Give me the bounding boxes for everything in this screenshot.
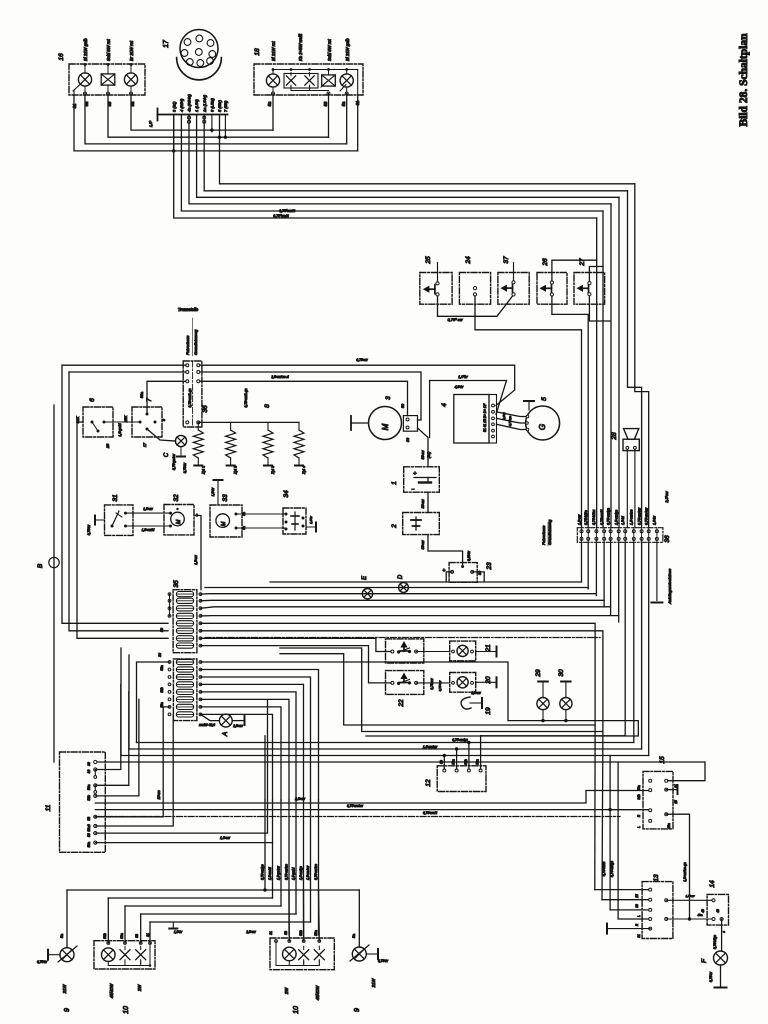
terminal strip of connector 17 (158, 114, 228, 116)
svg-text:35²sw: 35²sw (421, 540, 425, 550)
23 wires to line (446, 572, 452, 582)
svg-text:1,5²ge/bl: 1,5²ge/bl (292, 867, 296, 880)
svg-text:56a0: 56a0 (87, 824, 91, 832)
switch 25 (420, 273, 452, 305)
svg-text:9: 9 (354, 1008, 361, 1012)
svg-text:19: 19 (485, 707, 492, 715)
9L ground (49, 954, 60, 956)
svg-text:Grundfahrzeug: Grundfahrzeug (548, 519, 552, 545)
svg-text:0,75²br: 0,75²br (709, 971, 713, 982)
svg-text:1,5²sw: 1,5²sw (577, 514, 581, 525)
svg-text:Bl 21W gelb: Bl 21W gelb (345, 38, 350, 61)
svg-text:0,75²ws/rt: 0,75²ws/rt (423, 811, 437, 815)
strip36R fanout to mid lines (581, 542, 583, 581)
switch 27 wire bottom (589, 296, 610, 321)
svg-text:16: 16 (58, 53, 65, 61)
svg-text:Trennstelle: Trennstelle (178, 307, 199, 312)
svg-text:2,5²sw: 2,5²sw (232, 724, 243, 728)
svg-text:6: 6 (89, 398, 96, 402)
harness line y600 (201, 599, 605, 602)
band2 y809 (95, 809, 648, 811)
fuse u594 (176, 592, 193, 597)
lamp Bl 21W gelb (16) (78, 73, 91, 86)
svg-text:0,75²sw/gn: 0,75²sw/gn (452, 738, 468, 742)
harness line y607 (201, 607, 611, 609)
lamp Br 21W rot (16) (124, 73, 137, 86)
switch 25 wire to 37 (438, 295, 514, 317)
svg-text:27: 27 (579, 258, 586, 267)
svg-text:Fahrerhaus: Fahrerhaus (542, 525, 546, 545)
svg-text:31: 31 (112, 494, 119, 502)
svg-text:Bild 28. Schaltplan: Bild 28. Schaltplan (738, 33, 750, 127)
svg-text:Zyl 2: Zyl 2 (234, 465, 238, 475)
10L wires up (107, 898, 109, 943)
fuse u623 (176, 621, 193, 626)
strip36R cols down to lower band (624, 542, 626, 736)
ignition feed bus y422 (198, 421, 299, 423)
flasher box 12 (437, 766, 486, 792)
main harness line 15 (lower frame) (69, 371, 186, 373)
fuse u631 (176, 628, 193, 633)
resistor box 34 (283, 508, 306, 534)
svg-text:Schl 5W rot: Schl 5W rot (327, 39, 332, 61)
master switch 23 (449, 563, 477, 583)
lamp Ke 2+5W weiss (18) (284, 74, 318, 89)
svg-text:0,75²sw: 0,75²sw (430, 678, 434, 690)
svg-text:G: G (538, 424, 547, 430)
strip17 wire col8 to y137 (224, 115, 226, 138)
svg-text:21: 21 (485, 644, 492, 653)
svg-text:4: 4 (441, 403, 448, 407)
wires regulator to generator (497, 412, 527, 417)
svg-text:58: 58 (135, 934, 139, 938)
svg-text:4,5²br: 4,5²br (455, 385, 465, 389)
svg-text:56: 56 (87, 833, 91, 837)
lamp box 20 (416, 682, 450, 684)
svg-text:58: 58 (323, 101, 328, 106)
svg-text:(A1): (A1) (427, 452, 431, 458)
svg-text:26: 26 (542, 258, 549, 267)
svg-text:Bl 21W rot: Bl 21W rot (271, 41, 276, 61)
svg-text:2,5²rt: 2,5²rt (502, 412, 506, 420)
fuse l670 (176, 667, 193, 672)
fuse l677 (176, 674, 193, 679)
svg-text:L: L (637, 826, 641, 828)
svg-text:Bl 21W gelb: Bl 21W gelb (83, 38, 88, 61)
svg-text:49a: 49a (667, 823, 671, 829)
wire 30K from box 6 (77, 422, 168, 638)
fuse left bus upper (169, 594, 171, 616)
fuse u616 (176, 613, 193, 618)
svg-text:30: 30 (87, 762, 91, 766)
svg-text:0,35²br: 0,35²br (467, 550, 471, 561)
svg-text:23: 23 (486, 562, 493, 571)
starter terminal box (403, 416, 417, 432)
right bundle verticals (596, 218, 598, 528)
11 long wires band3 (95, 700, 267, 833)
ground wire from strip col 11 (656, 542, 658, 600)
svg-text:Zyl 1: Zyl 1 (201, 466, 205, 475)
svg-text:30K: 30K (76, 416, 80, 423)
cigar lighter 19 (461, 697, 471, 709)
horn wires to strip (626, 450, 628, 528)
band line y749 (129, 748, 642, 750)
svg-text:1,5²br: 1,5²br (458, 375, 468, 379)
svg-text:11: 11 (45, 804, 52, 811)
svg-text:20: 20 (485, 676, 492, 685)
switch 27 wire top loop (589, 267, 603, 282)
svg-text:0,75²br: 0,75²br (37, 960, 48, 964)
harness line y594 with lamp E (201, 593, 597, 595)
switch 37 (498, 273, 529, 305)
inline connectors on strip wires (188, 116, 191, 119)
svg-text:5a: 5a (352, 934, 356, 938)
frame left verticals (62, 365, 168, 623)
31 ground (96, 519, 105, 521)
svg-text:1: 1 (391, 481, 398, 485)
svg-text:3: 3 (385, 396, 392, 400)
strip36R pin x588 (587, 530, 590, 533)
svg-text:56a: 56a (87, 842, 91, 848)
svg-text:0,75² sw: 0,75² sw (447, 317, 463, 322)
svg-text:1,5²sw: 1,5²sw (471, 691, 481, 695)
svg-text:0,75²sw/rt: 0,75²sw/rt (600, 509, 604, 525)
lamp C ground (180, 447, 182, 455)
battery 1 (404, 467, 440, 492)
svg-text:1,5²: 1,5² (149, 120, 153, 127)
svg-text:58b: 58b (160, 687, 164, 693)
svg-text:B: B (37, 563, 44, 568)
10R wires up (288, 890, 290, 941)
svg-text:Br 21W rot: Br 21W rot (129, 40, 134, 61)
wire 18 terminal 31 drop (357, 70, 359, 96)
svg-text:2,5²sw/ws-rt: 2,5²sw/ws-rt (270, 375, 288, 379)
svg-text:30: 30 (158, 653, 162, 657)
svg-text:+: + (413, 471, 416, 477)
9R ground (366, 953, 377, 955)
harness line y624 loop A (201, 623, 596, 725)
rear lamp cluster box 16 (69, 64, 145, 95)
coil/plug Zyl 3 (267, 422, 269, 430)
wire 50a strip36L to starter 50 (200, 381, 408, 415)
strip36R pin x596 (595, 530, 598, 533)
ignition switch 6 (83, 407, 113, 437)
svg-text:35²sw: 35²sw (421, 499, 425, 509)
bottom mid verticals to lamps (264, 800, 266, 890)
fuse l684 (176, 682, 193, 687)
svg-text:8: 8 (264, 404, 271, 408)
fuse l707 (176, 704, 193, 709)
svg-text:Zyl 3: Zyl 3 (271, 465, 275, 475)
svg-text:56b: 56b (103, 933, 107, 939)
svg-text:15²ws: 15²ws (157, 790, 161, 799)
svg-text:2W: 2W (284, 987, 289, 995)
svg-text:D: D (398, 574, 404, 579)
svg-text:5a: 5a (341, 101, 346, 106)
connector strip 36 (right) (577, 528, 663, 543)
battery cable from starter (418, 428, 429, 467)
svg-text:0,75²br: 0,75²br (378, 959, 389, 963)
15 feeds (586, 790, 649, 792)
battery cable down (427, 478, 429, 483)
junction box 2 (403, 513, 440, 535)
svg-text:1,5²ws/sw: 1,5²ws/sw (306, 865, 310, 880)
generator ground (528, 402, 530, 410)
svg-text:0,75²sw/1-gn: 0,75²sw/1-gn (244, 388, 248, 407)
loop B tail down (601, 732, 604, 900)
band line y742 (137, 742, 634, 744)
switch 27 (574, 273, 605, 305)
svg-text:5a: 5a (60, 934, 64, 938)
horn 28 (624, 429, 639, 440)
lamp lines bottom (67, 889, 359, 891)
fuse u638 (176, 636, 193, 641)
svg-text:Ke 2+5W weiß: Ke 2+5W weiß (298, 33, 303, 61)
wires 13 to 14 (666, 899, 713, 901)
wiper switch 31 (105, 505, 134, 536)
switch 26 (537, 273, 567, 305)
headlamp 9 right (358, 890, 360, 947)
svg-text:25: 25 (425, 256, 432, 265)
svg-text:12: 12 (425, 779, 432, 787)
main harness line 30 (upper frame) (62, 364, 186, 366)
svg-text:24: 24 (465, 256, 472, 265)
svg-text:36: 36 (202, 405, 209, 413)
switch 24 wire right (475, 296, 582, 528)
separation connector 36 (left) (183, 361, 202, 427)
svg-text:0,75²ws/sw: 0,75²ws/sw (347, 804, 364, 808)
svg-text:18: 18 (254, 48, 261, 56)
wire 16-58 to 18 join y137 (108, 94, 329, 138)
strip36R pin x642 (640, 530, 643, 533)
svg-text:0,75²ge/rt: 0,75²ge/rt (273, 214, 289, 218)
fuse u646 (176, 643, 193, 648)
strip17 wire col6 to y131 (211, 115, 213, 132)
connector 17 (socket face) (180, 30, 218, 68)
svg-text:50a: 50a (140, 392, 144, 398)
svg-text:+: + (443, 568, 446, 574)
svg-text:35: 35 (173, 580, 180, 588)
strip36R pin x625 (624, 530, 627, 533)
harness line y631 loop B (201, 631, 603, 732)
lamp Schl 5W rot (18) (322, 75, 336, 86)
strip17 wire to 31 line (173, 115, 175, 151)
svg-text:15: 15 (635, 894, 639, 898)
svg-text:10: 10 (123, 1006, 130, 1014)
verticals continue bottom (264, 736, 266, 800)
feed to switch 22 upper (201, 638, 391, 651)
strip36R pin x604 (603, 530, 606, 533)
svg-text:5 (58r): 5 (58r) (217, 100, 222, 112)
switch 7 (132, 407, 162, 437)
svg-text:49: 49 (701, 909, 705, 913)
svg-text:51 61 15 B+ D+ DF: 51 61 15 B+ D+ DF (483, 403, 487, 432)
frame resume right of 36L (187, 364, 198, 366)
svg-text:58a: 58a (87, 784, 91, 790)
control lamp F (721, 919, 723, 951)
svg-text:6 (L5M): 6 (L5M) (210, 98, 215, 112)
svg-text:2,5²sw: 2,5²sw (245, 930, 256, 934)
strip36R pin x649 (647, 530, 650, 533)
wire 16-31 to 18 join y151 (74, 95, 358, 151)
svg-text:1,5²sw: 1,5²sw (686, 894, 696, 898)
svg-text:1,5²sw: 1,5²sw (194, 555, 198, 565)
headlamp cluster 10 right (270, 938, 334, 970)
svg-text:28: 28 (611, 432, 618, 441)
svg-text:0,75²ge/sw: 0,75²ge/sw (645, 507, 649, 525)
svg-text:0,75²sw/gn: 0,75²sw/gn (610, 861, 614, 877)
svg-text:21W: 21W (371, 978, 376, 989)
svg-text:7 (58l): 7 (58l) (223, 100, 228, 112)
strip36R pin x619 (617, 530, 620, 533)
svg-text:2,5²sw: 2,5²sw (665, 491, 669, 503)
svg-text:1,5²bl: 1,5²bl (621, 516, 625, 525)
svg-text:C: C (164, 452, 170, 457)
svg-text:50: 50 (160, 628, 164, 632)
coil/plug Zyl 1 (197, 422, 199, 430)
lamp Bl 21W gelb (18) (340, 74, 353, 87)
wire B line (53, 405, 55, 762)
svg-text:0,75²sw/ge: 0,75²sw/ge (261, 864, 265, 880)
jogged bundle wires to strip pins 9/10 (628, 191, 642, 528)
coil/plug Zyl 2 (230, 422, 232, 430)
feed to switch 22 lower (201, 646, 391, 683)
fuse strip 35 lower group (173, 659, 197, 721)
starter ground (351, 422, 369, 424)
wire 16-5a to 18 join y130 (131, 94, 273, 131)
ground at strip 17 (157, 109, 159, 121)
rear lamp cluster box 18 (254, 64, 363, 95)
svg-text:58b: 58b (87, 795, 91, 801)
svg-text:1,5²sw/ge: 1,5²sw/ge (615, 510, 619, 525)
svg-text:Schl 5W rot: Schl 5W rot (106, 39, 111, 61)
svg-text:45/40W: 45/40W (315, 985, 320, 1000)
charge lamp A (201, 714, 220, 720)
svg-text:1,5²sw/bl: 1,5²sw/bl (142, 528, 155, 532)
harness line y616 (201, 615, 619, 617)
node B (49, 557, 59, 567)
fuse l662 (176, 659, 193, 664)
svg-text:58: 58 (284, 931, 288, 935)
lamp D (399, 583, 409, 593)
lamp 30 (561, 681, 571, 683)
svg-text:31: 31 (637, 934, 641, 938)
svg-text:33: 33 (222, 494, 229, 502)
fuse to band verticals (120, 648, 122, 756)
svg-text:29: 29 (535, 669, 542, 678)
regulator 4 (454, 395, 489, 444)
svg-text:A: A (222, 732, 229, 737)
svg-text:32: 32 (173, 494, 180, 502)
light switch 11 (60, 752, 106, 852)
heater motor 33 (210, 505, 242, 537)
svg-text:L: L (637, 915, 641, 917)
svg-text:25: 25 (106, 443, 110, 449)
band line y735 (481, 735, 626, 737)
svg-text:Grundfahrzeug: Grundfahrzeug (194, 329, 198, 355)
svg-text:0,75²sw/rt: 0,75²sw/rt (602, 861, 606, 877)
svg-text:21W: 21W (62, 984, 67, 995)
loop A tail down (594, 725, 596, 890)
svg-text:5: 5 (541, 397, 548, 401)
svg-text:0,75²br: 0,75²br (183, 462, 187, 473)
34 ground (306, 526, 315, 528)
wires 33 to 34 (236, 513, 286, 515)
lamp E (362, 589, 372, 599)
svg-text:37: 37 (503, 256, 510, 264)
33 ground above (217, 481, 219, 505)
lamp box 21 (416, 651, 450, 653)
svg-text:1,5²br: 1,5²br (309, 515, 313, 524)
svg-text:Zyl 4: Zyl 4 (302, 466, 306, 475)
svg-text:0,75²br: 0,75²br (87, 524, 91, 535)
svg-text:15K: 15K (124, 415, 128, 422)
svg-text:−: − (411, 487, 414, 493)
svg-text:17: 17 (163, 39, 170, 48)
wiper motor 32 (164, 505, 194, 535)
svg-text:1 (L54): 1 (L54) (194, 99, 199, 112)
svg-text:0,75²sw: 0,75²sw (438, 680, 442, 691)
svg-text:1,5²sw: 1,5²sw (220, 836, 231, 840)
svg-text:0,75²gn: 0,75²gn (508, 416, 512, 427)
svg-text:0,75²sw/gn: 0,75²sw/gn (606, 508, 610, 525)
coil/plug Zyl 4 (298, 422, 300, 430)
battery cable to switch 23 (428, 535, 463, 565)
svg-text:56b: 56b (299, 930, 303, 936)
wires 31 to 32 (126, 512, 171, 514)
svg-text:1,5²sw: 1,5²sw (143, 507, 153, 511)
fuse l692 (176, 689, 193, 694)
svg-text:0,75²sw/1-gn: 0,75²sw/1-gn (188, 388, 192, 407)
svg-text:0,75²bl/nz: 0,75²bl/nz (592, 509, 596, 525)
svg-text:58a: 58a (476, 759, 480, 765)
verticals to 13 (595, 889, 649, 891)
svg-text:0,75²bl/ge: 0,75²bl/ge (713, 935, 717, 949)
svg-text:1,5²ws/sw: 1,5²ws/sw (423, 745, 438, 749)
svg-text:36: 36 (664, 535, 671, 543)
svg-text:4a (R54a): 4a (R54a) (187, 94, 192, 112)
harness dashdot boundary (205, 637, 600, 639)
svg-text:30: 30 (635, 904, 639, 908)
svg-text:22: 22 (398, 699, 405, 708)
svg-text:1,5²sw/ws: 1,5²sw/ws (630, 509, 634, 525)
band line y755 (121, 755, 649, 757)
svg-text:M: M (176, 519, 182, 524)
svg-text:1,5²br: 1,5²br (174, 930, 183, 934)
svg-text:1,5²br: 1,5²br (211, 487, 215, 497)
svg-text:0,75²sw/ws: 0,75²sw/ws (314, 864, 318, 880)
svg-text:M: M (381, 423, 390, 430)
switch 24 (459, 273, 490, 305)
svg-text:56a: 56a (120, 933, 124, 939)
svg-text:1,5²sw/ws-gn: 1,5²sw/ws-gn (683, 862, 687, 882)
harness line y587 with lamp D (205, 587, 588, 589)
svg-text:58b: 58b (464, 759, 468, 765)
svg-text:4 (R54): 4 (R54) (179, 98, 184, 112)
flasher 14 (707, 894, 728, 925)
fuse outputs to bottom verticals (201, 670, 319, 801)
fuse l699 (176, 697, 193, 702)
lamp Schl 5W rot (16) (101, 74, 115, 85)
jumper pairs in 11 (94, 770, 96, 777)
svg-text:2: 2 (391, 524, 398, 529)
connector 17 shell arc (177, 58, 222, 80)
svg-text:1,5²ws/bl: 1,5²ws/bl (268, 867, 272, 880)
svg-text:56a: 56a (314, 930, 318, 936)
svg-text:1,5²ge/bl: 1,5²ge/bl (118, 423, 122, 436)
svg-text:49: 49 (716, 909, 720, 913)
svg-text:2W: 2W (137, 984, 142, 992)
